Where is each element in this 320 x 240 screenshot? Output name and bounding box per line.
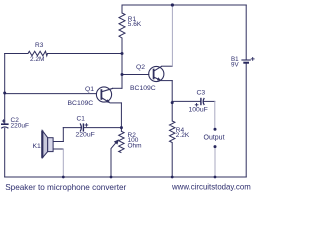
wire R2 top lead — [120, 128, 122, 132]
wire node to R4 top — [171, 103, 173, 121]
svg-text:R3: R3 — [35, 42, 44, 49]
svg-text:BC109C: BC109C — [68, 100, 94, 107]
wire R3 left lead — [5, 53, 28, 55]
wire Q1 collector horizontal — [113, 87, 123, 89]
wire C3 right lead — [204, 100, 215, 102]
wire right battery rail lower — [245, 64, 247, 177]
wire left rail lower — [4, 128, 6, 177]
wire Q2 collector horizontal — [162, 65, 173, 67]
svg-text:C3: C3 — [197, 90, 206, 97]
R2 wiper arrow to ground — [111, 141, 117, 177]
node ground output — [214, 176, 217, 179]
svg-text:5.6K: 5.6K — [128, 21, 142, 28]
wire speaker top riser — [62, 128, 64, 142]
node Q1 emitter / C1 / R2 — [120, 126, 123, 129]
wire Q2 emitter horizontal — [161, 80, 172, 82]
wire Q2 emitter stem to node — [171, 81, 173, 103]
wire R1 top lead — [121, 5, 123, 13]
wire C3 output stem upper (light) — [214, 101, 216, 128]
svg-text:100uF: 100uF — [189, 107, 208, 114]
wire C1 left lead from speaker — [63, 127, 81, 129]
capacitor C1 — [80, 123, 83, 131]
C3 plus sign — [195, 103, 199, 107]
wire Q1 emitter horizontal — [110, 102, 121, 104]
wire C1 right lead to node — [83, 127, 121, 129]
svg-text:Ohm: Ohm — [128, 142, 142, 149]
wire left rail upper — [4, 54, 6, 124]
wire ground rail — [5, 176, 247, 178]
svg-text:Speaker to microphone converte: Speaker to microphone converter — [5, 183, 126, 192]
output terminal bottom — [214, 145, 217, 148]
resistor R1 — [119, 13, 125, 38]
wire right battery rail upper — [245, 5, 247, 59]
wire collector riser R1 bottom to Q1 — [121, 38, 123, 88]
node Q2 base — [121, 73, 124, 76]
battery B1 — [241, 60, 250, 63]
svg-text:2.2M: 2.2M — [30, 56, 44, 63]
resistor R3 — [28, 51, 48, 56]
svg-text:220uF: 220uF — [76, 131, 95, 138]
node ground speaker — [62, 176, 65, 179]
svg-text:BC109C: BC109C — [130, 85, 156, 92]
wire speaker bottom riser (light) — [62, 149, 64, 177]
wire speaker top stub — [53, 141, 63, 143]
node Q2 emitter / R4 / C3 — [171, 101, 174, 104]
node left rail / Q1 base — [3, 92, 6, 95]
node top rail / Q2 collector — [171, 3, 174, 6]
svg-text:Output: Output — [204, 135, 225, 142]
wire top rail — [122, 4, 246, 6]
svg-text:9V: 9V — [231, 61, 239, 68]
wire R4 bottom lead — [171, 143, 173, 178]
node ground R2 wiper — [110, 176, 113, 179]
wire Q1 emitter stem down — [120, 103, 122, 128]
junction node dots — [3, 3, 216, 178]
node R3 / R1 — [121, 52, 124, 55]
wire Q2 base horizontal — [122, 74, 149, 76]
node ground R4 — [171, 176, 174, 179]
svg-text:K1: K1 — [33, 143, 42, 150]
capacitor C3 — [201, 98, 204, 105]
wire output stem lower (light) — [214, 148, 216, 177]
wire R3 right lead to node — [48, 53, 123, 55]
wire Q2 collector riser (light) — [171, 5, 173, 66]
transistor Q2 — [149, 66, 164, 81]
svg-text:2.2K: 2.2K — [176, 132, 190, 139]
transistor Q1 — [96, 87, 113, 103]
resistor R2 (preset with wiper arrow) — [119, 131, 124, 152]
svg-text:Q1: Q1 — [85, 86, 94, 93]
C2 plus sign — [2, 119, 5, 122]
svg-text:www.circuitstoday.com: www.circuitstoday.com — [171, 182, 251, 191]
capacitor C2 — [1, 124, 9, 128]
output terminal top — [214, 128, 217, 131]
wire speaker bottom stub — [53, 148, 63, 150]
resistor R4 — [170, 121, 175, 143]
speaker K1 — [42, 131, 53, 158]
B1 plus sign — [251, 57, 255, 61]
wire C3 left lead — [172, 100, 201, 102]
svg-text:220uF: 220uF — [11, 122, 29, 129]
C1 plus sign — [85, 123, 89, 127]
svg-text:Q2: Q2 — [136, 64, 145, 71]
svg-text:C1: C1 — [77, 115, 86, 122]
wire Q1 base from left junction — [5, 93, 97, 95]
